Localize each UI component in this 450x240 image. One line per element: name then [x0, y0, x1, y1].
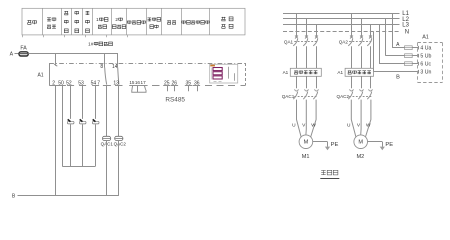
svg-text:M: M [304, 140, 309, 146]
breaker QA1 pole 1 [293, 13, 298, 68]
table bottom ticks [22, 35, 24, 37]
breaker QA2 pole 2 [358, 19, 363, 68]
svg-text:QAC2: QAC2 [337, 94, 350, 99]
table cell: auxiliary power [47, 18, 56, 22]
svg-text:17: 17 [141, 80, 147, 85]
svg-text:35: 35 [186, 80, 192, 86]
display module mark 2 [234, 73, 236, 80]
breaker QA1 pole 3 [313, 25, 318, 69]
wire bus drop to controller input [55, 54, 57, 66]
terminal tick 6 [418, 62, 420, 66]
caption underline [320, 178, 339, 180]
svg-text:A1: A1 [283, 70, 289, 75]
svg-text:B: B [12, 194, 16, 200]
table cell: start signal [127, 21, 145, 25]
svg-text:QAC2: QAC2 [114, 141, 127, 146]
contact blade 8-7 [105, 68, 107, 85]
svg-text:13: 13 [113, 80, 119, 86]
label CT1 text [294, 71, 317, 75]
controller box A1 top edge [49, 63, 245, 65]
caption main circuit [321, 170, 338, 175]
svg-text:M1: M1 [302, 154, 310, 160]
breaker QA2 link [349, 41, 372, 43]
svg-text:14: 14 [112, 64, 118, 70]
wire terminal 52 lower [70, 124, 72, 166]
svg-text:6 Uc: 6 Uc [420, 62, 431, 68]
fuse FA [19, 52, 28, 56]
wire terminal 7 down [106, 86, 108, 137]
svg-text:FA: FA [20, 45, 27, 51]
contactor QAC1 link [294, 96, 317, 98]
wire row Uc [379, 63, 418, 65]
svg-text:QA2: QA2 [339, 39, 349, 44]
breaker QA1 link [294, 41, 317, 43]
svg-text:50: 50 [58, 80, 64, 86]
contactor QAC1 pole 1 [293, 76, 298, 99]
svg-text:B: B [396, 75, 400, 81]
table cell: pump1 control [96, 17, 108, 22]
display module mark 1 [228, 67, 230, 79]
wire bottom return rail B [18, 195, 119, 197]
display module slot 2 [213, 72, 222, 75]
breaker QA2 pole 1 [348, 13, 353, 68]
label 1# pump control [88, 41, 112, 46]
svg-text:2: 2 [52, 80, 55, 86]
wire row A [392, 47, 418, 49]
power line L2 [283, 18, 400, 20]
signal table frame [22, 8, 245, 35]
motor M2 [351, 100, 356, 137]
svg-text:W: W [366, 123, 371, 129]
svg-text:N: N [405, 30, 409, 36]
svg-text:#: # [91, 41, 94, 46]
controller input terminal tick [54, 64, 57, 66]
svg-text:3 Un: 3 Un [420, 70, 431, 76]
display module slot 1 [213, 68, 222, 71]
svg-text:QAC1: QAC1 [101, 141, 114, 146]
table cell: level transmit signal [182, 21, 209, 25]
wire contact 14 stub [117, 54, 119, 68]
wire main control bus [28, 53, 118, 55]
wire 16 stub [137, 86, 139, 93]
display module slot 3 [213, 76, 222, 79]
coil QAC2 [115, 136, 123, 140]
svg-text:53: 53 [78, 80, 84, 86]
table cell: high water level [86, 11, 90, 33]
motor M1 [297, 100, 302, 137]
contactor QAC1 pole 3 [313, 76, 318, 99]
terminal tick 5 [418, 54, 420, 58]
contactor QAC1 pole 2 [303, 76, 308, 99]
wire terminal 54 down [95, 86, 97, 119]
wire 26 stub [174, 86, 176, 92]
svg-text:54: 54 [91, 80, 97, 86]
wire 36 stub [197, 86, 199, 92]
contactor QAC2 pole 2 [358, 76, 363, 99]
wire terminal 53 down [82, 86, 84, 119]
wire 25 stub [167, 86, 169, 92]
wire coil QAC1 down [106, 141, 108, 196]
float switch BGQ2 (mid) [79, 119, 86, 124]
svg-text:36: 36 [194, 80, 200, 86]
display module orange indicator [210, 65, 215, 67]
fuse row Ub [405, 54, 413, 58]
neutral line N [283, 31, 400, 33]
wire terminal 52 down [70, 86, 72, 119]
table cell: protection [27, 20, 36, 24]
current transformer box 1 [290, 68, 321, 76]
wire contact 8 stub [104, 54, 106, 68]
wire A to fuse FA [15, 53, 19, 55]
table cell: pump2 control [115, 17, 122, 22]
svg-text:2: 2 [115, 17, 118, 22]
controller box A1 left edge [49, 63, 51, 86]
wire L1 tap down [392, 13, 394, 48]
svg-text:M: M [358, 140, 363, 146]
wire terminal 53 lower [82, 124, 84, 166]
power line L1 [283, 13, 400, 15]
terminal tick 4 [418, 46, 420, 50]
svg-text:52: 52 [66, 80, 72, 86]
svg-text:QA1: QA1 [284, 39, 294, 44]
wire L2 tap down [385, 19, 387, 56]
label CT2 text [348, 71, 371, 75]
svg-text:QAC1: QAC1 [282, 94, 295, 99]
svg-text:RS485: RS485 [165, 96, 185, 103]
svg-text:26: 26 [172, 80, 178, 86]
display module box [210, 64, 238, 83]
svg-text:7: 7 [97, 80, 100, 86]
wire 35 stub [188, 86, 190, 92]
current transformer box 2 [345, 68, 373, 76]
controller box A1 right edge [245, 63, 247, 86]
wire terminal 54 lower [95, 124, 97, 166]
wire row Ub [386, 55, 418, 57]
voltage terminal box A1 [417, 43, 419, 83]
transmitter shield bracket [132, 90, 146, 92]
coil QAC1 [103, 136, 111, 140]
wire 15 stub [131, 86, 134, 90]
wire terminal 13 down [118, 86, 120, 137]
table cell: communication [167, 20, 176, 24]
svg-text:1: 1 [96, 17, 99, 22]
wire 17 stub [144, 86, 145, 90]
wire L3 tap down [379, 25, 381, 64]
display module base marks [214, 81, 217, 83]
contactor QAC2 pole 1 [348, 76, 353, 99]
svg-text:A: A [10, 52, 14, 58]
svg-text:L3: L3 [402, 23, 409, 29]
wire terminal 2 down [55, 86, 57, 196]
display module left column [211, 68, 213, 80]
svg-text:A1: A1 [37, 72, 43, 78]
controller box A1 bottom edge [49, 85, 54, 87]
svg-text:25: 25 [164, 80, 170, 86]
contactor QAC2 link [349, 96, 372, 98]
float switch BGQ1 (low) [67, 119, 74, 124]
table cell: mid water level [75, 11, 79, 33]
svg-text:A1: A1 [337, 70, 343, 75]
svg-text:V: V [357, 123, 361, 129]
fuse row Uc [405, 62, 413, 66]
breaker QA1 pole 2 [303, 19, 308, 68]
svg-text:V: V [302, 123, 306, 129]
svg-text:PE: PE [385, 142, 393, 148]
terminal tick 3 [418, 70, 420, 74]
svg-text:U: U [347, 123, 351, 129]
fuse row A [405, 46, 413, 50]
breaker QA2 pole 3 [367, 25, 372, 69]
svg-text:4 Ua: 4 Ua [420, 46, 431, 52]
wire terminal 50 down [62, 86, 64, 166]
svg-text:U: U [292, 123, 296, 129]
table cell: high level signal [148, 18, 161, 22]
svg-text:M2: M2 [357, 154, 365, 160]
contactor QAC2 pole 3 [367, 76, 372, 99]
wire N tap down [373, 32, 375, 72]
svg-text:8: 8 [100, 64, 103, 70]
wire row B [374, 71, 418, 73]
svg-text:5 Ub: 5 Ub [420, 54, 431, 60]
svg-text:PE: PE [331, 142, 339, 148]
contact blade 14-13 [118, 68, 119, 85]
power line L3 [283, 24, 400, 26]
table cell: local control [222, 17, 234, 21]
svg-text:A1: A1 [422, 35, 429, 41]
svg-text:W: W [311, 123, 316, 129]
wire coil QAC2 down [118, 141, 120, 196]
wire float common rail [62, 166, 95, 168]
table cell: low water level [64, 11, 68, 33]
float switch BGQ3 (high) [92, 119, 99, 124]
